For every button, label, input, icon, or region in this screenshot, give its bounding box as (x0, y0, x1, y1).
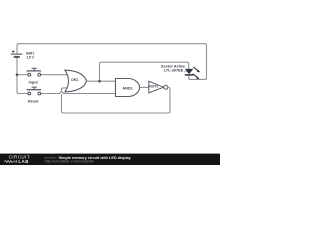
svg-text:1.5 V: 1.5 V (26, 55, 34, 59)
svg-text:LAB: LAB (18, 159, 28, 164)
svg-text:NOT1: NOT1 (149, 85, 158, 89)
svg-text:LTL-307EE: LTL-307EE (164, 68, 184, 72)
svg-text:AND1: AND1 (122, 86, 132, 90)
svg-text:Reset: Reset (28, 99, 39, 103)
svg-text:Input: Input (29, 80, 39, 84)
svg-text:OR1: OR1 (71, 78, 78, 82)
svg-text:http://circuitlab.com/cndqv5b: http://circuitlab.com/cndqv5b (45, 158, 94, 163)
